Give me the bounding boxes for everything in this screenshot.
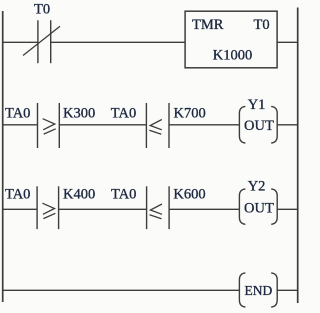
svg-text:TA0: TA0 [5, 105, 30, 121]
coil Y1 right paren [271, 106, 277, 143]
wire coil Y1 to right rail [277, 124, 298, 126]
wire comparator1 to comparator2 [59, 124, 146, 126]
wire rung4 [3, 289, 240, 291]
wire rung3 left [3, 208, 37, 210]
svg-text:K400: K400 [63, 187, 95, 203]
coil Y2 left paren [239, 189, 245, 224]
comparator4 bar1 [146, 186, 148, 229]
svg-text:END: END [245, 283, 273, 298]
svg-text:OUT: OUT [244, 118, 274, 134]
svg-text:T0: T0 [34, 2, 50, 18]
wire coil END to right rail [277, 289, 298, 291]
contact T0 bar1 [37, 20, 39, 63]
svg-text:TA0: TA0 [111, 105, 136, 121]
svg-text:K600: K600 [173, 187, 205, 203]
comparator3 bar1 [36, 186, 38, 229]
coil Y2 right paren [271, 189, 277, 224]
svg-text:TA0: TA0 [111, 187, 136, 203]
svg-text:K300: K300 [63, 105, 95, 121]
svg-text:TA0: TA0 [5, 187, 30, 203]
coil END right paren [271, 273, 277, 307]
comparator2 bar1 [145, 103, 147, 148]
right power rail [297, 8, 299, 304]
comparator1 bar1 [37, 103, 39, 148]
svg-text:Y1: Y1 [248, 97, 266, 113]
TMR timer box U1 [185, 11, 277, 68]
contact T0 bar2 [50, 20, 52, 63]
wire coil Y2 to right rail [277, 208, 298, 210]
comparator1 GE symbol [43, 119, 56, 134]
svg-text:OUT: OUT [244, 201, 274, 217]
contact T0 NC slash [23, 26, 60, 55]
comparator2 bar2 [168, 103, 170, 148]
left power rail [2, 11, 4, 302]
svg-text:TMR: TMR [192, 17, 224, 33]
svg-text:Y2: Y2 [248, 179, 266, 195]
coil END left paren [239, 273, 245, 307]
coil Y1 left paren [239, 106, 245, 143]
comparator1 bar2 [58, 103, 60, 148]
comparator3 GE symbol [42, 203, 55, 218]
comparator4 bar2 [168, 186, 170, 229]
comparator2 LE symbol [149, 120, 162, 135]
wire rung1 left [3, 41, 38, 43]
svg-text:T0: T0 [254, 17, 270, 33]
wire rung2 left [3, 124, 38, 126]
wire comparator2 to coil Y1 [169, 124, 239, 126]
wire comparator3 to comparator4 [59, 208, 147, 210]
svg-text:K700: K700 [174, 105, 206, 121]
wire comparator4 to coil Y2 [169, 208, 239, 210]
comparator4 LE symbol [150, 204, 163, 219]
wire contact to TMR box [51, 41, 185, 43]
svg-text:K1000: K1000 [213, 47, 252, 63]
wire TMR box to right rail [277, 41, 298, 43]
comparator3 bar2 [58, 186, 60, 229]
